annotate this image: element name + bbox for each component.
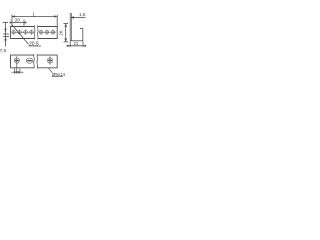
svg-text:L: L xyxy=(33,12,36,18)
svg-text:20,5: 20,5 xyxy=(29,42,39,48)
svg-text:21: 21 xyxy=(74,41,79,46)
svg-text:7,5: 7,5 xyxy=(0,48,7,54)
svg-text:20: 20 xyxy=(15,18,21,24)
svg-text:1,5: 1,5 xyxy=(79,12,86,17)
svg-text:20: 20 xyxy=(58,30,63,36)
svg-text:Ø9x14: Ø9x14 xyxy=(52,72,65,77)
